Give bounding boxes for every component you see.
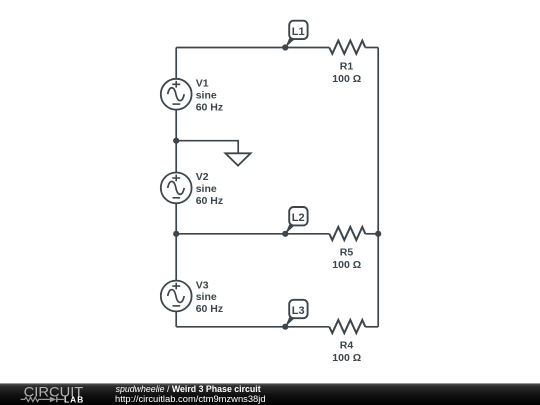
net flag L2 — [285, 207, 308, 234]
svg-text:60 Hz: 60 Hz — [196, 195, 223, 207]
svg-text:60 Hz: 60 Hz — [196, 101, 223, 113]
svg-text:http://circuitlab.com/ctm9mzwn: http://circuitlab.com/ctm9mzwns38jd — [115, 393, 266, 404]
footer bar — [0, 383, 540, 405]
resistor R4 — [329, 320, 365, 333]
CircuitLab logo LAB — [64, 394, 83, 404]
R5 value label — [332, 247, 361, 272]
voltage source V2 — [161, 173, 192, 204]
junction dot middle rail right bus — [375, 231, 381, 237]
R1 value label — [332, 61, 361, 85]
svg-text:sine: sine — [196, 89, 217, 101]
resistor R5 — [329, 227, 365, 240]
svg-text:R1: R1 — [340, 61, 354, 73]
svg-text:L2: L2 — [292, 212, 305, 224]
wire bottom rail right segment — [365, 326, 378, 328]
voltage source V1 — [161, 79, 192, 110]
svg-text:100 Ω: 100 Ω — [332, 259, 361, 271]
svg-text:100 Ω: 100 Ω — [332, 352, 361, 364]
wire middle rail — [176, 233, 329, 235]
svg-text:V3: V3 — [196, 279, 209, 291]
R4 value label — [332, 340, 361, 364]
svg-text:L1: L1 — [292, 26, 305, 38]
svg-text:sine: sine — [196, 291, 217, 303]
svg-text:V1: V1 — [196, 78, 209, 90]
svg-text:LAB: LAB — [64, 394, 83, 404]
node dot L3 — [282, 324, 288, 330]
wire bottom rail left segment — [176, 326, 329, 328]
svg-text:R5: R5 — [340, 247, 354, 259]
svg-text:R4: R4 — [340, 340, 354, 352]
resistor R1 — [329, 41, 365, 54]
wire right bus — [377, 48, 379, 327]
wire middle rail right segment — [365, 233, 378, 235]
node dot L2 — [282, 231, 288, 237]
V2 value label — [196, 171, 223, 207]
node dot L1 — [282, 44, 288, 50]
wire middle rail junction to V3 — [175, 234, 177, 281]
wire V2 to middle rail — [175, 203, 177, 233]
V1 value label — [196, 78, 223, 114]
wire ground junction to V2 — [175, 141, 177, 173]
ground — [225, 153, 250, 165]
net flag L3 — [285, 300, 308, 327]
footer title line — [116, 384, 261, 394]
CircuitLab logo CIRCUIT — [24, 384, 84, 400]
voltage source V3 — [161, 281, 192, 312]
V3 value label — [196, 279, 223, 315]
footer url line — [115, 393, 266, 404]
wire top rail left segment — [176, 47, 329, 49]
CircuitLab logo resistor-diode line — [21, 397, 64, 403]
net flag L1 — [285, 21, 308, 48]
svg-text:L3: L3 — [292, 305, 305, 317]
ground wire — [176, 141, 238, 154]
wire left bus top (top rail to V1) — [175, 48, 177, 80]
svg-text:100 Ω: 100 Ω — [332, 73, 361, 85]
wire top rail right segment — [365, 47, 378, 49]
wire V1 to ground junction — [175, 110, 177, 141]
wire V3 to bottom rail — [175, 311, 177, 326]
junction dot V1-V2-ground — [173, 138, 179, 144]
svg-text:V2: V2 — [196, 171, 209, 183]
svg-text:sine: sine — [196, 183, 217, 195]
junction dot V2-V3-middle rail — [173, 231, 179, 237]
svg-text:60 Hz: 60 Hz — [196, 303, 223, 315]
